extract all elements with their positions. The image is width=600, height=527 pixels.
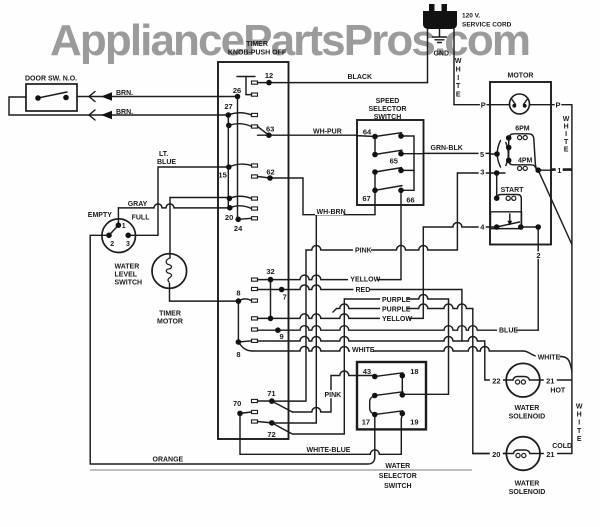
- svg-text:FULL: FULL: [132, 215, 151, 222]
- svg-text:21: 21: [546, 376, 554, 385]
- svg-text:TIMER: TIMER: [246, 41, 268, 48]
- svg-text:SOLENOID: SOLENOID: [509, 413, 546, 420]
- svg-text:PURPLE: PURPLE: [382, 307, 411, 314]
- svg-text:LEVEL: LEVEL: [115, 272, 138, 279]
- svg-text:2: 2: [536, 251, 540, 260]
- svg-text:SWITCH: SWITCH: [374, 114, 402, 121]
- svg-text:BRN.: BRN.: [116, 109, 133, 116]
- svg-text:120 V.: 120 V.: [462, 13, 480, 20]
- svg-text:22: 22: [492, 376, 500, 385]
- svg-text:DOOR SW. N.O.: DOOR SW. N.O.: [25, 76, 77, 83]
- svg-text:E: E: [456, 92, 461, 99]
- svg-text:WATER: WATER: [385, 463, 410, 470]
- svg-text:SWITCH: SWITCH: [115, 280, 143, 287]
- svg-text:WHITE: WHITE: [538, 354, 561, 361]
- svg-text:19: 19: [410, 418, 418, 427]
- svg-text:WATER: WATER: [115, 264, 140, 271]
- svg-text:20: 20: [225, 213, 233, 222]
- svg-text:SOLENOID: SOLENOID: [509, 489, 546, 496]
- svg-text:70: 70: [233, 399, 241, 408]
- svg-text:I: I: [565, 131, 567, 138]
- svg-text:PURPLE: PURPLE: [382, 297, 411, 304]
- svg-text:1: 1: [122, 223, 126, 230]
- svg-text:LT.: LT.: [159, 151, 168, 158]
- svg-text:27: 27: [224, 102, 232, 111]
- svg-text:43: 43: [363, 367, 371, 376]
- svg-text:SPEED: SPEED: [376, 98, 400, 105]
- svg-text:4PM: 4PM: [518, 157, 533, 164]
- svg-text:WH-PUR: WH-PUR: [313, 128, 342, 135]
- svg-text:5: 5: [480, 150, 484, 159]
- svg-text:32: 32: [266, 267, 274, 276]
- svg-text:GRN-BLK: GRN-BLK: [431, 145, 463, 152]
- svg-text:WATER: WATER: [515, 481, 540, 488]
- svg-text:3: 3: [480, 168, 484, 177]
- svg-text:BLACK: BLACK: [348, 74, 373, 81]
- svg-text:WHITE-BLUE: WHITE-BLUE: [307, 447, 351, 454]
- svg-text:21: 21: [546, 450, 554, 459]
- svg-text:66: 66: [406, 195, 414, 204]
- svg-text:WH-BRN: WH-BRN: [317, 209, 346, 216]
- svg-text:MOTOR: MOTOR: [157, 319, 183, 326]
- svg-text:3: 3: [126, 241, 130, 248]
- svg-text:E: E: [564, 146, 569, 153]
- svg-text:18: 18: [410, 367, 418, 376]
- svg-text:17: 17: [362, 418, 370, 427]
- svg-text:H: H: [564, 124, 569, 131]
- svg-text:H: H: [456, 66, 461, 73]
- svg-text:YELLOW: YELLOW: [350, 276, 380, 283]
- svg-text:67: 67: [362, 194, 370, 203]
- svg-text:PINK: PINK: [325, 392, 342, 399]
- svg-text:E: E: [577, 436, 582, 443]
- svg-text:SERVICE CORD: SERVICE CORD: [462, 22, 512, 29]
- svg-text:EMPTY: EMPTY: [88, 212, 112, 219]
- svg-text:62: 62: [266, 167, 274, 176]
- svg-text:64: 64: [363, 127, 372, 136]
- svg-text:15: 15: [218, 170, 226, 179]
- svg-text:71: 71: [267, 389, 275, 398]
- svg-text:PINK: PINK: [355, 248, 372, 255]
- svg-text:HOT: HOT: [550, 388, 566, 395]
- svg-text:ORANGE: ORANGE: [153, 456, 184, 463]
- svg-text:SELECTOR: SELECTOR: [379, 473, 417, 480]
- svg-text:SWITCH: SWITCH: [384, 483, 412, 490]
- svg-text:12: 12: [265, 71, 273, 80]
- svg-text:8: 8: [236, 350, 240, 359]
- svg-text:9: 9: [280, 332, 284, 341]
- svg-text:GND.: GND.: [434, 51, 452, 58]
- svg-text:START: START: [501, 187, 525, 194]
- svg-text:I: I: [457, 75, 459, 82]
- svg-text:W: W: [576, 404, 583, 411]
- svg-text:BLUE: BLUE: [157, 159, 176, 166]
- svg-text:T: T: [564, 139, 569, 146]
- svg-text:24: 24: [234, 224, 243, 233]
- svg-text:P: P: [555, 100, 560, 109]
- svg-text:WHITE: WHITE: [352, 347, 375, 354]
- svg-text:TIMER: TIMER: [159, 311, 181, 318]
- svg-text:T: T: [456, 83, 461, 90]
- svg-text:T: T: [577, 428, 582, 435]
- svg-text:BLUE: BLUE: [499, 328, 518, 335]
- svg-text:KNOB-PUSH OFF: KNOB-PUSH OFF: [228, 50, 287, 57]
- svg-text:W: W: [455, 58, 462, 65]
- svg-text:1: 1: [557, 166, 561, 175]
- svg-text:20: 20: [492, 450, 500, 459]
- svg-text:BRN.: BRN.: [116, 90, 133, 97]
- svg-text:63: 63: [266, 125, 274, 134]
- svg-text:WATER: WATER: [515, 405, 540, 412]
- svg-text:W: W: [563, 116, 570, 123]
- svg-text:MOTOR: MOTOR: [508, 73, 534, 80]
- svg-text:I: I: [578, 420, 580, 427]
- svg-text:6PM: 6PM: [515, 126, 530, 133]
- svg-text:72: 72: [267, 430, 275, 439]
- svg-text:P: P: [481, 100, 486, 109]
- svg-text:2: 2: [110, 241, 114, 248]
- svg-text:SELECTOR: SELECTOR: [369, 106, 407, 113]
- svg-text:8: 8: [236, 289, 240, 298]
- svg-text:RED: RED: [356, 287, 371, 294]
- svg-text:26: 26: [233, 86, 241, 95]
- svg-text:YELLOW: YELLOW: [382, 316, 412, 323]
- svg-text:7: 7: [283, 292, 287, 301]
- svg-text:COLD: COLD: [552, 443, 572, 450]
- svg-text:H: H: [577, 412, 582, 419]
- svg-text:65: 65: [390, 157, 398, 166]
- svg-text:GRAY: GRAY: [128, 201, 148, 208]
